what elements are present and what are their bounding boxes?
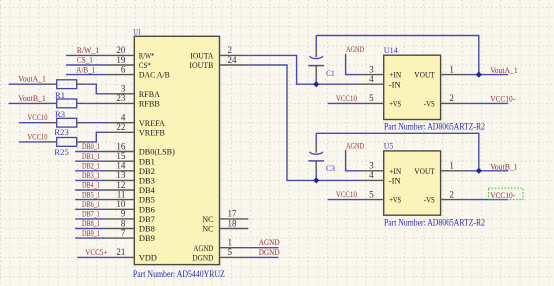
wire R25 to pin	[86, 132, 106, 142]
svg-text:NC: NC	[202, 214, 213, 224]
resistor R23	[44, 118, 87, 137]
svg-text:1: 1	[449, 64, 454, 74]
svg-text:CS*: CS*	[139, 60, 151, 70]
svg-text:VREFA: VREFA	[139, 118, 166, 128]
wire net DB6_1	[75, 208, 105, 210]
svg-text:U5: U5	[384, 141, 394, 151]
svg-text:6: 6	[121, 64, 126, 74]
svg-text:CS_1: CS_1	[77, 55, 93, 65]
U1 pin 6 (DAC A/B)	[105, 64, 170, 79]
op-amp U14 body	[384, 55, 441, 119]
wire IOUTA (pin2) to U14 -IN	[248, 55, 355, 84]
U1 pin 11 (DB5)	[105, 189, 155, 204]
wire to R23	[19, 122, 44, 124]
wire C1 to -IN node	[315, 76, 317, 84]
U1 pin 16 (DB0(LSB))	[105, 141, 175, 156]
svg-text:24: 24	[228, 55, 238, 65]
svg-text:VoutB_1: VoutB_1	[490, 161, 518, 171]
U1 pin 7 (DB9)	[105, 228, 155, 243]
wire C3 to -IN node	[315, 172, 317, 181]
svg-text:VoutA_1: VoutA_1	[18, 74, 46, 84]
wire net DB7_1	[75, 218, 105, 220]
junction VOUT U5	[476, 168, 482, 174]
svg-text:+VS: +VS	[389, 99, 401, 109]
U1 pin 9 (DB7)	[105, 209, 155, 224]
svg-text:16: 16	[116, 141, 126, 151]
svg-text:U14: U14	[384, 45, 399, 55]
U1 pin 2 (IOUTA)	[190, 45, 248, 60]
svg-text:IOUTB: IOUTB	[189, 60, 213, 70]
svg-text:R25: R25	[54, 147, 69, 157]
wire VoutB_1 output	[469, 170, 508, 172]
U1 pin 21 (VDD)	[116, 247, 156, 262]
U1 pin 10 (DB6)	[105, 199, 155, 214]
svg-text:VoutA_1: VoutA_1	[490, 65, 518, 75]
U1 pin 18 (NC)	[202, 218, 248, 233]
svg-text:DB5_1: DB5_1	[82, 189, 100, 199]
svg-text:5: 5	[369, 189, 374, 199]
svg-text:-VS: -VS	[424, 99, 435, 109]
U5 pin 1 (VOUT)	[414, 161, 469, 176]
svg-text:DGND: DGND	[192, 253, 213, 263]
svg-text:VCC10: VCC10	[336, 93, 358, 103]
U1 pin 23 (RFBB)	[105, 93, 160, 108]
svg-text:Part Number: AD5440YRUZ: Part Number: AD5440YRUZ	[133, 270, 225, 280]
svg-text:+VS: +VS	[389, 195, 401, 205]
wire R23 to pin	[86, 122, 106, 124]
svg-text:-IN: -IN	[389, 79, 402, 89]
svg-text:VOUT: VOUT	[414, 166, 435, 176]
svg-text:Part Number: AD8065ARTZ-R2: Part Number: AD8065ARTZ-R2	[384, 219, 485, 229]
svg-text:4: 4	[369, 74, 374, 84]
svg-text:AGND: AGND	[346, 141, 364, 151]
svg-text:DGND: DGND	[259, 247, 280, 257]
wire net DGND (U1 pin5)	[248, 256, 278, 258]
wire VoutA_1 output	[469, 74, 508, 76]
svg-text:R/W_1: R/W_1	[77, 45, 100, 55]
svg-text:DB0(LSB): DB0(LSB)	[139, 147, 175, 157]
svg-text:VCC10: VCC10	[336, 189, 358, 199]
svg-text:5: 5	[228, 247, 233, 257]
svg-text:DB5: DB5	[139, 195, 156, 205]
svg-text:17: 17	[228, 209, 238, 219]
svg-text:8: 8	[121, 218, 126, 228]
wire net DB4_1	[75, 189, 105, 191]
svg-text:Part Number: AD8065ARTZ-R2: Part Number: AD8065ARTZ-R2	[384, 122, 485, 132]
svg-text:3: 3	[369, 161, 374, 171]
wire net AGND (U5)	[346, 150, 357, 171]
wire net VCC5+	[77, 256, 123, 258]
U1 pin 20 (R/W*)	[105, 45, 154, 60]
svg-text:C1: C1	[326, 68, 335, 78]
svg-text:DB4_1: DB4_1	[82, 180, 100, 190]
U1 pin 5 (DGND)	[192, 247, 248, 262]
svg-text:VCC10-: VCC10-	[490, 94, 515, 104]
junction C3/-IN	[313, 177, 319, 183]
U14 pin 1 (VOUT)	[414, 64, 469, 79]
svg-text:C3: C3	[326, 163, 335, 173]
svg-text:7: 7	[121, 228, 126, 238]
svg-text:R3: R3	[55, 109, 65, 119]
wire net VCC10 (U14)	[328, 102, 357, 104]
svg-text:DB8: DB8	[139, 224, 156, 234]
U1 pin 13 (DB3)	[105, 170, 155, 185]
U1 pin 12 (DB4)	[105, 180, 155, 195]
wire to R1	[9, 83, 44, 85]
svg-text:AGND: AGND	[193, 243, 213, 253]
svg-text:1: 1	[228, 238, 233, 248]
svg-text:14: 14	[116, 161, 126, 171]
U1 pin 22 (VREFB)	[105, 122, 165, 137]
svg-text:VoutB_1: VoutB_1	[18, 93, 46, 103]
svg-text:VOUT: VOUT	[414, 70, 435, 80]
svg-text:R23: R23	[54, 127, 69, 137]
U1 pin 3 (RFBA)	[105, 84, 160, 99]
svg-text:AGND: AGND	[259, 237, 280, 247]
svg-text:DB3: DB3	[139, 176, 156, 186]
svg-text:DB8_1: DB8_1	[82, 218, 100, 228]
wire net CS_1	[66, 64, 105, 66]
svg-text:-IN: -IN	[389, 176, 402, 186]
svg-text:11: 11	[117, 189, 126, 199]
wire VOUT U14 feedback top	[316, 36, 479, 75]
resistor R25	[44, 138, 87, 158]
svg-text:23: 23	[116, 93, 126, 103]
wire net VCC10 (U5)	[328, 199, 357, 201]
U1 pin 19 (CS*)	[105, 55, 150, 70]
U14 pin 4 (-IN)	[356, 74, 402, 89]
U1 pin 14 (DB2)	[105, 161, 154, 176]
svg-text:NC: NC	[202, 224, 213, 234]
wire IOUTB (pin24) to U5 -IN	[248, 65, 355, 180]
svg-text:21: 21	[116, 247, 125, 257]
wire net DB0_1	[75, 151, 105, 153]
svg-text:2: 2	[449, 93, 454, 103]
wire R1 to pin	[86, 84, 106, 94]
svg-text:VCC5+: VCC5+	[85, 247, 107, 257]
svg-text:DAC A/B: DAC A/B	[139, 70, 170, 80]
U1 pin 17 (NC)	[202, 209, 248, 224]
svg-text:1: 1	[449, 161, 454, 171]
U1 pin 15 (DB1)	[105, 151, 154, 166]
resistor R1	[44, 80, 87, 100]
svg-text:20: 20	[116, 45, 126, 55]
svg-text:DB6_1: DB6_1	[82, 199, 100, 209]
svg-text:-VS: -VS	[424, 195, 435, 205]
svg-text:12: 12	[116, 180, 125, 190]
wire net DB8_1	[75, 228, 105, 230]
U14 pin 5 (+VS)	[356, 93, 402, 108]
wire VOUT U5 feedback top	[316, 133, 479, 171]
wire net DB5_1	[75, 199, 105, 201]
U14 pin 2 (-VS)	[424, 93, 470, 108]
svg-text:DB2: DB2	[139, 166, 155, 176]
wire net DB3_1	[75, 179, 105, 181]
resistor R3	[44, 99, 87, 119]
svg-text:IOUTA: IOUTA	[190, 51, 214, 61]
svg-text:DB7_1: DB7_1	[82, 209, 100, 219]
svg-text:9: 9	[121, 209, 126, 219]
svg-text:+IN: +IN	[389, 166, 402, 176]
U1 pin 8 (DB8)	[105, 218, 155, 233]
wire net R/W_1	[66, 54, 105, 56]
capacitor C1	[308, 36, 334, 79]
svg-text:DB9: DB9	[139, 233, 156, 243]
U5 pin 4 (-IN)	[356, 170, 402, 185]
wire net AGND (U1 pin1)	[248, 247, 278, 249]
wire VCC10- (U14)	[469, 102, 508, 104]
IC U1 body	[134, 36, 219, 264]
wire net DB2_1	[75, 170, 105, 172]
svg-text:3: 3	[121, 84, 126, 94]
svg-text:5: 5	[369, 93, 374, 103]
svg-text:DB6: DB6	[139, 204, 156, 214]
svg-text:DB7: DB7	[139, 214, 156, 224]
wire to R25	[19, 141, 44, 143]
svg-text:VCC10-: VCC10-	[490, 190, 515, 200]
svg-text:DB9_1: DB9_1	[82, 228, 100, 238]
wire net DB1_1	[75, 160, 105, 162]
wire net A/B_1	[66, 74, 105, 76]
svg-text:4: 4	[121, 113, 126, 123]
svg-text:U1: U1	[133, 26, 141, 36]
svg-text:15: 15	[116, 151, 126, 161]
wire to R3	[9, 102, 44, 104]
wire net AGND (U14)	[346, 54, 357, 75]
junction VOUT U14	[476, 72, 482, 78]
U14 pin 3 (+IN)	[356, 64, 402, 79]
svg-text:RFBB: RFBB	[139, 99, 160, 109]
svg-text:13: 13	[116, 170, 126, 180]
svg-text:DB1_1: DB1_1	[82, 151, 100, 161]
U5 pin 3 (+IN)	[356, 161, 402, 176]
svg-text:A/B_1: A/B_1	[76, 64, 95, 74]
svg-text:22: 22	[116, 122, 125, 132]
svg-text:DB4: DB4	[139, 185, 156, 195]
svg-text:2: 2	[228, 45, 233, 55]
svg-text:DB1: DB1	[139, 156, 155, 166]
svg-text:AGND: AGND	[346, 44, 364, 54]
svg-text:3: 3	[369, 64, 374, 74]
svg-text:DB0_1: DB0_1	[82, 141, 100, 151]
svg-text:VCC10: VCC10	[28, 112, 48, 122]
svg-text:RFBA: RFBA	[139, 89, 161, 99]
svg-text:10: 10	[116, 199, 126, 209]
svg-text:DB2_1: DB2_1	[82, 161, 100, 171]
svg-text:18: 18	[228, 218, 238, 228]
junction C1/-IN	[313, 81, 319, 87]
wire net DB9_1	[75, 237, 105, 239]
U1 pin 4 (VREFA)	[105, 113, 165, 128]
svg-text:+IN: +IN	[389, 70, 402, 80]
svg-text:DB3_1: DB3_1	[82, 170, 100, 180]
svg-text:VDD: VDD	[139, 253, 157, 263]
svg-text:4: 4	[369, 170, 374, 180]
capacitor C3	[308, 133, 335, 173]
svg-text:VCC10: VCC10	[28, 131, 48, 141]
wire R3 to pin	[86, 102, 106, 104]
U1 pin 1 (AGND)	[193, 238, 248, 253]
svg-text:R/W*: R/W*	[139, 51, 155, 61]
selection box around VCC10-	[489, 188, 524, 200]
U5 pin 2 (-VS)	[424, 189, 470, 204]
svg-text:2: 2	[449, 189, 454, 199]
svg-text:19: 19	[116, 55, 126, 65]
svg-text:VREFB: VREFB	[139, 127, 165, 137]
op-amp U5 body	[384, 151, 441, 215]
wire VCC10- (U5)	[469, 199, 508, 201]
U5 pin 5 (+VS)	[356, 189, 402, 204]
U1 pin 24 (IOUTB)	[189, 55, 248, 70]
